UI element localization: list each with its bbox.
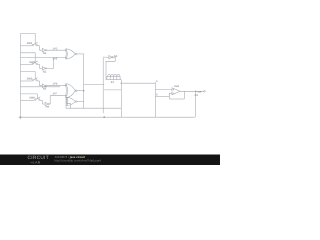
svg-text:N5: N5 bbox=[114, 55, 118, 58]
inverter N3 bbox=[42, 84, 46, 88]
svg-text:JP3: JP3 bbox=[53, 57, 58, 60]
wire mid upper link bbox=[104, 89, 121, 91]
wire op-amp plus input bbox=[155, 88, 172, 90]
inverter N1 bbox=[42, 48, 46, 52]
gate U3 XNOR bbox=[66, 97, 77, 105]
wire coil jog vertical bbox=[120, 80, 122, 118]
switch SW2 bbox=[21, 61, 40, 64]
op-amp U4 bbox=[172, 88, 180, 95]
wire inv5 feed top bbox=[104, 56, 109, 58]
component labels bbox=[27, 42, 202, 108]
wire gate U3 out bbox=[77, 101, 84, 103]
svg-text:OA1: OA1 bbox=[174, 85, 180, 88]
wire mid cross horizontal bbox=[84, 84, 105, 86]
wire busline2 bbox=[21, 86, 61, 88]
wire inverter N4 out, jog up to gate U2 bbox=[49, 96, 66, 104]
wire out drop to rail bbox=[195, 91, 197, 117]
wire bottom rail bbox=[19, 116, 195, 118]
wire row2 step bbox=[40, 65, 43, 69]
wire inverter N2 out, jog up to gate1 bbox=[47, 58, 54, 69]
switch SW1 bbox=[21, 42, 40, 45]
footer bar bbox=[0, 155, 220, 166]
wire row4 stub bbox=[21, 94, 38, 99]
svg-text:JP6: JP6 bbox=[53, 83, 58, 86]
inverter N2 bbox=[42, 67, 46, 71]
wire inverter N3 out bbox=[47, 85, 67, 87]
wire coil right lead bbox=[120, 79, 121, 81]
wire gate U3 in2 feed bbox=[67, 103, 71, 108]
svg-text:JP2: JP2 bbox=[53, 47, 58, 50]
svg-text:N2: N2 bbox=[43, 70, 47, 73]
svg-text:N4: N4 bbox=[46, 106, 50, 109]
wire right pins vertical bbox=[154, 82, 156, 117]
switch SW4 bbox=[21, 97, 43, 100]
wire feedback loop bbox=[183, 91, 185, 99]
wire op-amp minus feed bbox=[155, 95, 169, 97]
wire row4 step bbox=[42, 100, 45, 104]
svg-text:R1: R1 bbox=[195, 94, 199, 97]
wire left bus vertical bbox=[20, 34, 22, 120]
svg-text:SW2: SW2 bbox=[29, 61, 35, 64]
wire row3 stub bbox=[21, 72, 36, 80]
wire gate U1 out bbox=[77, 53, 84, 55]
wire inverter N1 out bbox=[47, 49, 67, 51]
svg-text:SW3: SW3 bbox=[27, 77, 33, 80]
svg-text:N1: N1 bbox=[43, 52, 47, 55]
wire gate U3 in1 feed bbox=[65, 99, 68, 108]
svg-text:-«LAB: -«LAB bbox=[30, 160, 41, 164]
svg-text:N3: N3 bbox=[43, 88, 47, 91]
wire row2 stub bbox=[21, 53, 36, 64]
wire inv5 feed vertical bbox=[102, 57, 104, 114]
footer logo bbox=[28, 155, 102, 164]
wire row1 step bbox=[40, 46, 43, 50]
wire row1 stub bbox=[21, 34, 36, 45]
svg-text:SW1: SW1 bbox=[27, 42, 33, 45]
wire busline1 bbox=[21, 57, 67, 59]
svg-text:SW4: SW4 bbox=[29, 97, 35, 100]
svg-text:http://circuitlab.com/c4xw7k9p: http://circuitlab.com/c4xw7k9p1pqs4 bbox=[55, 159, 102, 163]
wire feedback left leg bbox=[169, 93, 172, 99]
gate U1 XNOR bbox=[65, 49, 77, 59]
wire bottom link bbox=[66, 107, 121, 109]
svg-text:K1: K1 bbox=[111, 81, 115, 84]
wire inverter N5 out loop bbox=[106, 57, 115, 79]
inverter N5 bbox=[109, 56, 113, 59]
wire mid vertical bbox=[83, 54, 85, 108]
gate U2 XNOR bbox=[65, 84, 77, 98]
svg-text:out: out bbox=[198, 90, 202, 93]
switch SW3 bbox=[21, 78, 40, 81]
inverter N4 bbox=[45, 102, 49, 106]
wire gate U2 out bbox=[77, 90, 84, 92]
wire row3 step bbox=[40, 81, 43, 86]
wire to op-amp plus bbox=[121, 82, 155, 84]
output pin bbox=[204, 91, 206, 93]
svg-text:JP7: JP7 bbox=[52, 93, 57, 96]
node junction dots bbox=[20, 83, 197, 119]
wire op-amp out bbox=[180, 90, 204, 92]
relay coil K1 bbox=[107, 74, 120, 79]
wire feedback to minus input bbox=[169, 98, 184, 100]
